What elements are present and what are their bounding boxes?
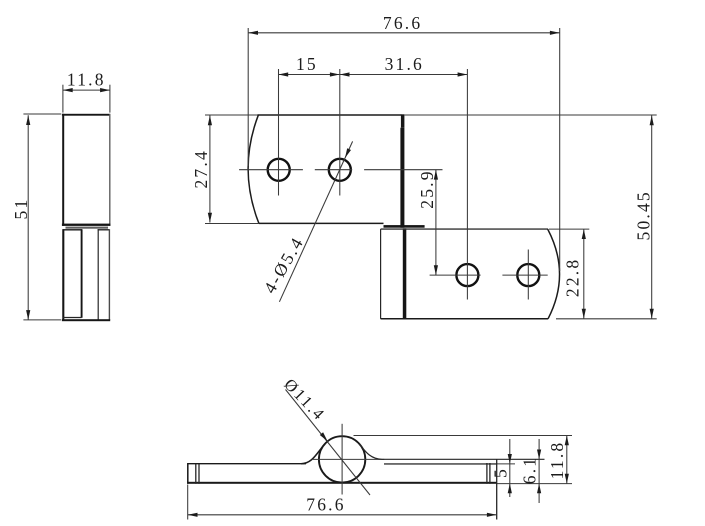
dimension 5 lower arrow — [508, 484, 512, 494]
left view lower section top edge right segment — [98, 229, 110, 231]
upper leaf bottom edge — [259, 222, 384, 224]
dimension 11.8 left extension line — [62, 85, 64, 113]
lower leaf left edge — [380, 229, 382, 319]
profile bottom edge — [187, 482, 497, 484]
dimension 11.8 right arrow — [100, 88, 110, 92]
dimension 76.6 top left arrow — [248, 31, 258, 35]
svg-text:11.8: 11.8 — [67, 70, 106, 90]
hole H2 vertical centerline and extension — [339, 69, 341, 196]
dimension 5 extension line — [497, 463, 515, 465]
knuckle circle horizontal centerline — [313, 458, 384, 460]
dimension 11.8 right extension line — [109, 85, 111, 113]
left view lower inner bottom line — [63, 317, 82, 319]
bottom extension line for 22.8 and 50.45 — [556, 318, 657, 320]
dimension 50.45 dimension line — [651, 116, 653, 319]
left view upper plate bottom edge — [62, 224, 111, 226]
knuckle circle phi11.4 — [319, 436, 365, 482]
dimension 11.8 top extension line — [354, 435, 573, 437]
dimension 22.8 top arrow — [582, 229, 586, 239]
hole H2 horizontal centerline — [315, 169, 352, 171]
hole H2 circle — [329, 159, 351, 181]
dimension 11.8 dimension line — [63, 89, 110, 91]
dimension 25.9 top arrow — [434, 170, 438, 180]
dimension 31.6 right arrow — [458, 72, 468, 76]
dimension 76.6 top right arrow — [550, 31, 560, 35]
dimension 27.4 top arrow — [208, 115, 212, 125]
dimension 6.1 lower arrow — [537, 484, 541, 494]
profile left end edge — [187, 463, 189, 484]
dimension 5 dimension line — [509, 439, 511, 497]
upper leaf top edge — [258, 114, 402, 116]
hole H3 circle — [456, 264, 478, 286]
left view upper plate right edge — [109, 114, 111, 226]
profile left end inner line 2 — [198, 464, 200, 484]
dimension 15 and 31.6 dimension line — [278, 74, 467, 76]
dimension 76.6 top left extension line — [247, 28, 249, 166]
hole H1 horizontal centerline — [239, 169, 303, 171]
dimension 25.9 dimension line — [435, 170, 437, 275]
profile right end inner line 2 — [489, 463, 491, 484]
dimension 11.8 left arrow — [63, 88, 73, 92]
hole H4 circle — [517, 264, 539, 286]
dimension 51 top arrow — [26, 115, 30, 125]
left view knuckle seam gray band — [66, 227, 109, 229]
lower leaf bottom edge — [381, 318, 549, 320]
lower leaf top edge — [381, 228, 548, 230]
left view lower section outer right edge — [108, 229, 110, 320]
profile right end edge and 76.6 extension — [496, 460, 498, 520]
left view lower section top edge left segment — [63, 229, 82, 231]
lower leaf thick left line — [403, 228, 407, 318]
left view upper plate left edge — [62, 114, 64, 226]
leader line 4-phi5.4 — [279, 141, 352, 301]
leader line phi11.4 — [286, 390, 371, 496]
left view lower section outer left edge — [62, 229, 64, 321]
dimension 5 upper arrow — [508, 454, 512, 464]
dimension 51 dimension line — [27, 115, 29, 320]
profile bottom extension line right — [497, 483, 572, 485]
svg-text:15: 15 — [296, 54, 318, 74]
svg-text:76.6: 76.6 — [383, 13, 422, 33]
svg-text:22.8: 22.8 — [563, 258, 583, 297]
hole H4 vertical centerline — [527, 250, 529, 300]
hole H1 circle — [268, 159, 290, 181]
dimension 31.6 left arrow — [340, 72, 350, 76]
left view lower section inner left line — [81, 229, 83, 318]
dimension 27.4 dimension line — [209, 115, 211, 222]
svg-text:51: 51 — [11, 198, 31, 220]
dimension 11.8 right top arrow — [565, 436, 569, 446]
svg-text:25.9: 25.9 — [417, 169, 437, 208]
leader arrow phi11.4 — [320, 432, 328, 441]
dimension 51 bottom arrow — [26, 310, 30, 320]
svg-text:27.4: 27.4 — [191, 149, 211, 188]
dimension 51 bottom extension line — [23, 319, 61, 321]
knuckle circle vertical centerline — [341, 424, 343, 495]
dimension 76.6 top right extension line — [559, 28, 561, 271]
dimension 76.6 top dimension line — [248, 32, 560, 34]
dimension 76.6 bottom dimension line — [188, 514, 497, 516]
dimension 25.9 bottom arrow — [434, 265, 438, 275]
dimension 25.9 top extension line — [364, 169, 442, 171]
knuckle junction thick horizontal seam — [384, 225, 425, 228]
svg-text:11.8: 11.8 — [547, 441, 567, 480]
hole H4 horizontal centerline — [502, 274, 547, 276]
dimension 15 right arrow — [330, 72, 340, 76]
lower leaf right arc edge — [548, 229, 560, 319]
dimension 76.6 bottom left arrow — [188, 513, 198, 517]
profile right end inner line 1 — [486, 463, 488, 484]
svg-text:6.1: 6.1 — [520, 456, 540, 484]
hole H3 vertical centerline and extension — [466, 69, 468, 300]
profile right S-curve and right leaf top edge with 6.1 extension — [359, 444, 544, 459]
upper leaf top edge with extension lines 27.4 and 50.45 — [205, 114, 259, 116]
dimension 6.1 upper arrow — [537, 450, 541, 460]
svg-text:76.6: 76.6 — [306, 495, 345, 515]
leader arrow 4-phi5.4 — [345, 148, 351, 158]
svg-text:31.6: 31.6 — [385, 54, 424, 74]
left view lower section inner right line — [97, 229, 99, 320]
upper leaf left arc edge — [248, 115, 259, 223]
hole H1 vertical centerline and extension — [278, 69, 280, 196]
left view bottom edge — [62, 319, 110, 321]
dimension 22.8 bottom arrow — [582, 309, 586, 319]
dimension 50.45 bottom arrow — [650, 309, 654, 319]
extension line at top right for 50.45 — [405, 114, 657, 116]
svg-text:5: 5 — [491, 467, 511, 478]
svg-text:50.45: 50.45 — [634, 190, 654, 240]
dimension 51 top extension line — [23, 113, 61, 115]
profile left S-curve into knuckle — [301, 445, 324, 464]
hole H3 horizontal centerline and 25.9 extension — [430, 274, 481, 276]
dimension 27.4 bottom arrow — [208, 213, 212, 223]
dimension 76.6 bottom left extension line — [187, 485, 189, 520]
dimension 22.8 dimension line — [583, 229, 585, 318]
profile left leaf top edge — [188, 463, 307, 465]
dimension 27.4 bottom extension line — [205, 223, 259, 225]
dimension 6.1 dimension line — [538, 439, 540, 503]
profile left end inner line 1 — [195, 464, 197, 484]
profile overlap seam line — [384, 463, 497, 465]
dimension 50.45 top arrow — [650, 116, 654, 126]
dimension 11.8 right dimension line — [566, 436, 568, 484]
upper leaf right thick edge — [401, 114, 405, 127]
dimension 22.8 top extension line — [549, 228, 589, 230]
dimension 76.6 bottom right arrow — [487, 513, 497, 517]
dimension 15 left arrow — [278, 72, 288, 76]
left view upper plate top edge — [62, 114, 111, 116]
dimension 11.8 right bottom arrow — [565, 474, 569, 484]
